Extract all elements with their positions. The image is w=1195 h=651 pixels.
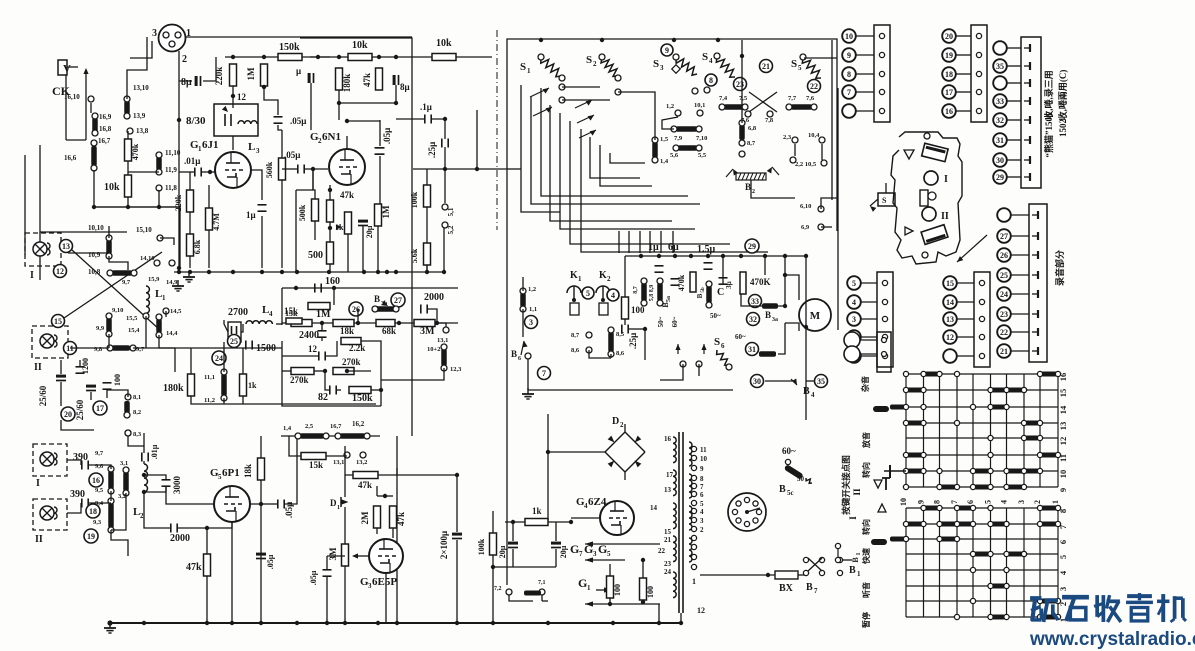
connector pins 5-3 bbox=[847, 272, 893, 367]
wire bbox=[821, 144, 823, 160]
wire bbox=[338, 103, 340, 120]
dash separator bbox=[496, 30, 498, 230]
svg-text:4: 4 bbox=[611, 291, 615, 300]
svg-text:6E5P: 6E5P bbox=[372, 576, 397, 588]
wire bbox=[108, 226, 110, 238]
svg-text:8,7: 8,7 bbox=[747, 140, 756, 147]
wire bbox=[106, 390, 108, 398]
resistor 18k bbox=[243, 458, 265, 480]
wire bbox=[426, 169, 428, 185]
wire bbox=[326, 556, 328, 569]
wire bbox=[89, 502, 111, 504]
svg-text:100: 100 bbox=[631, 305, 645, 315]
node bbox=[443, 117, 447, 121]
svg-text:1k: 1k bbox=[532, 506, 542, 516]
svg-text:12: 12 bbox=[697, 606, 705, 615]
svg-text:7,7: 7,7 bbox=[788, 95, 797, 102]
svg-text:5a: 5a bbox=[666, 296, 672, 302]
circled 35 bbox=[815, 375, 828, 388]
svg-text:杂音: 杂音 bbox=[860, 376, 870, 392]
node bbox=[231, 55, 266, 98]
svg-text:12,3: 12,3 bbox=[450, 366, 462, 373]
svg-text:.25μ: .25μ bbox=[628, 333, 638, 349]
label 9,7 bbox=[122, 279, 131, 286]
wire bbox=[127, 131, 129, 139]
svg-text:3: 3 bbox=[660, 64, 664, 72]
label rotated anjian text bbox=[841, 455, 851, 515]
wire bbox=[426, 265, 428, 272]
svg-text:1: 1 bbox=[692, 577, 696, 586]
circled 16 bbox=[89, 473, 103, 487]
wire bbox=[680, 613, 682, 623]
svg-text:.05μ: .05μ bbox=[290, 116, 306, 126]
capacitor .01u bbox=[184, 156, 201, 177]
node caps bus bbox=[639, 254, 787, 258]
svg-text:21: 21 bbox=[1000, 347, 1008, 356]
svg-text:10+2: 10+2 bbox=[427, 346, 440, 353]
svg-text:13,9: 13,9 bbox=[133, 112, 146, 120]
wiper arrows S1 bbox=[530, 88, 552, 116]
wire bbox=[282, 341, 381, 406]
svg-text:2400: 2400 bbox=[299, 330, 319, 341]
svg-text:S: S bbox=[520, 61, 526, 73]
wire bus caps bbox=[625, 255, 806, 257]
keyboard triangle down bbox=[904, 150, 914, 159]
wire bbox=[344, 515, 346, 544]
keyboard slant bar II bbox=[921, 225, 948, 245]
svg-text:10k: 10k bbox=[352, 40, 368, 51]
svg-text:4: 4 bbox=[852, 298, 856, 307]
svg-text:G: G bbox=[570, 542, 579, 556]
svg-text:I: I bbox=[30, 270, 34, 281]
resistor 47k grid bbox=[327, 190, 355, 222]
svg-text:8μ: 8μ bbox=[400, 82, 410, 92]
resistor 150k bbox=[278, 42, 302, 61]
wire bbox=[610, 354, 612, 358]
svg-text:20: 20 bbox=[64, 410, 72, 419]
wire bbox=[672, 231, 674, 253]
svg-text:5: 5 bbox=[852, 279, 856, 288]
wire bbox=[281, 180, 283, 268]
wire bbox=[885, 183, 887, 193]
svg-text:5b: 5b bbox=[701, 287, 706, 293]
svg-text:L: L bbox=[248, 141, 255, 153]
node bbox=[294, 286, 336, 290]
svg-text:1,5: 1,5 bbox=[660, 136, 669, 143]
switch bar 9,8-9,7 bbox=[94, 345, 145, 353]
capacitor 390 b bbox=[70, 489, 88, 508]
resistor 10k b bbox=[432, 38, 456, 61]
keyboard small rect bbox=[920, 190, 936, 206]
svg-text:1: 1 bbox=[578, 275, 582, 283]
wire bbox=[67, 503, 81, 513]
svg-text:4.7M: 4.7M bbox=[212, 213, 221, 231]
svg-text:10,4: 10,4 bbox=[808, 132, 820, 139]
wire bbox=[289, 436, 301, 456]
svg-text:BX: BX bbox=[779, 583, 794, 594]
svg-text:19: 19 bbox=[945, 51, 953, 60]
svg-text:19: 19 bbox=[87, 532, 95, 541]
wire bbox=[785, 323, 799, 331]
wire bbox=[377, 495, 393, 497]
svg-text:160: 160 bbox=[325, 276, 340, 287]
svg-text:60~: 60~ bbox=[735, 333, 746, 341]
wire bbox=[660, 231, 662, 253]
svg-text:60~: 60~ bbox=[671, 316, 679, 327]
svg-text:13: 13 bbox=[62, 242, 70, 251]
wire bbox=[128, 171, 159, 173]
svg-text:15: 15 bbox=[664, 528, 672, 536]
node bbox=[608, 600, 645, 606]
tube G5 6P1 bbox=[210, 467, 250, 522]
svg-text:47k: 47k bbox=[186, 562, 202, 573]
wire bottom of input block bbox=[94, 207, 180, 268]
circled 13 bbox=[60, 240, 73, 253]
svg-text:21: 21 bbox=[664, 536, 672, 544]
circled 24 bbox=[212, 351, 226, 365]
svg-text:3: 3 bbox=[529, 318, 533, 327]
svg-text:390: 390 bbox=[70, 489, 85, 500]
matrix column numbers bbox=[899, 498, 1060, 506]
wire bbox=[361, 341, 381, 406]
svg-text:50~: 50~ bbox=[710, 312, 721, 320]
wire bbox=[178, 527, 207, 529]
wire bbox=[232, 136, 234, 150]
wire bbox=[639, 231, 641, 253]
contact 2,3 bbox=[783, 134, 798, 143]
matrix closed contacts bbox=[903, 371, 1060, 619]
wire bbox=[493, 566, 505, 568]
contacts 7,1 bbox=[494, 580, 546, 596]
wire bbox=[376, 486, 378, 496]
wire bbox=[379, 120, 381, 146]
wire bbox=[522, 309, 524, 337]
wire bbox=[821, 198, 837, 209]
wire bbox=[109, 256, 128, 270]
wiper triangles S6 bbox=[675, 344, 706, 367]
wire bbox=[329, 222, 331, 242]
wire bbox=[326, 341, 337, 356]
svg-text:6: 6 bbox=[721, 342, 725, 350]
svg-text:“熊猫”1501: “熊猫”1501 bbox=[1043, 112, 1054, 158]
contacts 2,2 10,5 bbox=[790, 157, 827, 168]
svg-text:.05μ: .05μ bbox=[382, 128, 392, 144]
wire bbox=[313, 169, 315, 199]
switch bar 7,7-7,6 bbox=[786, 95, 817, 110]
cross wires bbox=[741, 92, 777, 124]
svg-text:180k: 180k bbox=[163, 383, 184, 394]
resistor 4.7M bbox=[206, 208, 222, 231]
wire bbox=[327, 555, 345, 557]
svg-text:9,7: 9,7 bbox=[122, 279, 131, 286]
label 9,4 bbox=[95, 500, 104, 507]
resistor 100 e bbox=[640, 578, 656, 600]
wire bbox=[144, 487, 166, 492]
node bbox=[379, 388, 383, 392]
svg-text:.25μ: .25μ bbox=[427, 142, 437, 158]
node bottom bbox=[205, 621, 263, 625]
coil L3 label bbox=[248, 141, 260, 155]
circled 29 bbox=[745, 239, 759, 253]
svg-text:15,10: 15,10 bbox=[136, 226, 152, 234]
wire bbox=[642, 560, 644, 578]
svg-text:3μ: 3μ bbox=[725, 281, 733, 289]
wire bbox=[658, 604, 660, 623]
resistor 150k b bbox=[349, 387, 373, 405]
svg-text:2.2k: 2.2k bbox=[349, 343, 365, 353]
svg-text:1μ: 1μ bbox=[648, 242, 659, 253]
switch bar 15,4 bbox=[128, 314, 178, 338]
capacitor 390 a bbox=[73, 452, 88, 470]
potentiometer 3M bbox=[328, 544, 358, 566]
wire bbox=[428, 309, 437, 323]
svg-text:14,5: 14,5 bbox=[170, 308, 182, 315]
wire bbox=[628, 231, 630, 253]
svg-text:3M: 3M bbox=[420, 326, 435, 337]
svg-text:8,3: 8,3 bbox=[133, 431, 142, 438]
wire bbox=[281, 130, 283, 158]
wire bundle bbox=[560, 113, 695, 229]
wire bbox=[40, 145, 127, 232]
wire bbox=[346, 136, 348, 149]
resistor 100 d bbox=[607, 576, 623, 598]
capacitor 3000 bbox=[162, 476, 183, 495]
svg-text:6: 6 bbox=[700, 491, 704, 499]
tape head I lower box bbox=[33, 444, 67, 489]
svg-text:快速: 快速 bbox=[861, 548, 871, 564]
connector pins 27-21 bbox=[997, 204, 1047, 362]
node bbox=[804, 254, 808, 329]
keyboard small circle top bbox=[924, 133, 930, 139]
svg-text:转向: 转向 bbox=[861, 519, 871, 535]
switch S1 bbox=[520, 54, 565, 103]
keyboard arrow right bbox=[957, 235, 987, 262]
switch bar 8,2 bbox=[124, 401, 141, 418]
wire bbox=[310, 83, 312, 130]
contact 13,1 bbox=[437, 327, 449, 344]
switch contact bar 16,9-16,8 bbox=[92, 113, 112, 136]
svg-text:8,2: 8,2 bbox=[133, 409, 141, 416]
svg-text:7,9: 7,9 bbox=[674, 135, 683, 142]
circled 8 bbox=[705, 74, 717, 86]
switch bar 7,9-7,10 bbox=[671, 126, 707, 142]
wire bbox=[206, 528, 208, 554]
svg-text:5.6k: 5.6k bbox=[410, 248, 419, 263]
svg-text:1M: 1M bbox=[381, 205, 391, 219]
label 50~ a bbox=[657, 316, 665, 327]
svg-text:31: 31 bbox=[748, 345, 756, 354]
switch B3b 27 bbox=[372, 293, 405, 312]
node bbox=[783, 273, 787, 308]
label 9,5 bbox=[95, 487, 104, 494]
svg-text:1: 1 bbox=[1051, 500, 1060, 504]
svg-text:6J1: 6J1 bbox=[202, 139, 219, 151]
svg-text:8: 8 bbox=[709, 76, 713, 85]
switch bar head2 bbox=[108, 498, 114, 533]
svg-text:6: 6 bbox=[1058, 540, 1068, 544]
svg-text:1,4: 1,4 bbox=[283, 425, 292, 432]
svg-text:8,1: 8,1 bbox=[133, 394, 141, 401]
switch bar head1 bbox=[108, 466, 114, 494]
wire bbox=[127, 37, 147, 99]
resistor 47k f bbox=[390, 506, 407, 528]
resistor 220k g1 bbox=[174, 190, 194, 212]
svg-text:10,8: 10,8 bbox=[88, 268, 101, 276]
node bbox=[337, 101, 398, 105]
svg-text:47k: 47k bbox=[396, 512, 406, 526]
wire bbox=[60, 360, 62, 374]
svg-text:13: 13 bbox=[946, 315, 954, 324]
label 9,3 bbox=[93, 519, 102, 526]
wire bbox=[143, 446, 145, 453]
label rotated luyin bufen bbox=[1054, 250, 1065, 286]
svg-text:470k: 470k bbox=[677, 274, 686, 291]
svg-text:G: G bbox=[578, 576, 587, 590]
resistor 1M bbox=[246, 64, 268, 86]
switch bar 5,6-5,5 bbox=[670, 145, 707, 159]
wire bbox=[39, 232, 41, 280]
wire bbox=[190, 348, 192, 374]
wire bbox=[649, 231, 651, 253]
resistor 47k d bbox=[186, 554, 211, 576]
wire bbox=[443, 228, 445, 272]
svg-text:6,9: 6,9 bbox=[801, 224, 810, 231]
wire bbox=[344, 566, 346, 623]
svg-text:S: S bbox=[714, 336, 720, 348]
resistor 180k b bbox=[163, 374, 195, 396]
svg-text:3: 3 bbox=[152, 28, 157, 39]
wire bbox=[79, 360, 81, 366]
wire bbox=[589, 350, 611, 358]
wire bbox=[242, 396, 244, 404]
capacitor .05u c bbox=[376, 128, 393, 154]
node bbox=[641, 558, 645, 562]
svg-text:.1μ: .1μ bbox=[420, 102, 432, 112]
wire bbox=[282, 370, 291, 372]
wire bbox=[344, 507, 346, 515]
svg-text:25: 25 bbox=[1000, 271, 1008, 280]
wire box left bbox=[295, 190, 297, 272]
svg-text:9: 9 bbox=[665, 46, 669, 55]
wire bbox=[128, 433, 144, 446]
capacitor 2x100u bbox=[439, 531, 462, 559]
svg-text:1,2: 1,2 bbox=[528, 286, 536, 293]
svg-text:15,4: 15,4 bbox=[128, 327, 140, 334]
contact 8,3 b bbox=[125, 430, 131, 436]
svg-text:1,4: 1,4 bbox=[660, 158, 669, 165]
svg-text:2,5: 2,5 bbox=[305, 423, 314, 430]
wire bus bbox=[225, 56, 330, 58]
wire bbox=[133, 348, 175, 372]
wire bbox=[831, 40, 833, 200]
svg-text:16,8: 16,8 bbox=[99, 125, 112, 133]
wire bbox=[296, 189, 313, 191]
svg-text:3,1: 3,1 bbox=[120, 460, 128, 467]
svg-text:22: 22 bbox=[810, 82, 818, 91]
wire bbox=[778, 256, 785, 306]
circled 18 bbox=[86, 504, 100, 518]
svg-text:7,10: 7,10 bbox=[696, 135, 707, 142]
wire bbox=[624, 472, 626, 480]
wire bbox=[629, 328, 645, 330]
label B5a bbox=[661, 296, 672, 308]
diode bridge D2 bbox=[605, 416, 645, 472]
circled 33 bbox=[749, 295, 779, 309]
wire bbox=[189, 172, 191, 190]
svg-text:3: 3 bbox=[593, 550, 597, 558]
contact 6,9 bbox=[801, 224, 824, 231]
wire bbox=[224, 320, 228, 332]
svg-text:12: 12 bbox=[308, 344, 318, 354]
svg-text:13,10: 13,10 bbox=[133, 84, 149, 92]
switch bar 7,4-7,5 bbox=[719, 95, 748, 110]
node bbox=[311, 167, 315, 171]
wire bbox=[444, 147, 446, 169]
svg-text:2700: 2700 bbox=[228, 307, 248, 318]
svg-text:7: 7 bbox=[700, 483, 704, 491]
resistor 2.2k bbox=[341, 338, 365, 354]
resistor 15k bbox=[284, 306, 312, 327]
logo kuang bbox=[1030, 598, 1058, 622]
svg-text:500k: 500k bbox=[298, 204, 307, 221]
circled 15 bbox=[52, 315, 65, 328]
label rotated mode text col2 bbox=[1057, 70, 1068, 121]
wire bbox=[347, 120, 380, 122]
svg-text:47k: 47k bbox=[362, 73, 372, 87]
svg-text:11: 11 bbox=[700, 446, 707, 454]
svg-text:8,6: 8,6 bbox=[616, 350, 625, 357]
wire bbox=[624, 319, 626, 325]
wire bbox=[700, 574, 775, 576]
label 14,9 bbox=[166, 279, 178, 286]
tape head II box bbox=[32, 326, 68, 373]
resistor 220k bbox=[214, 64, 237, 86]
wire bbox=[345, 446, 353, 475]
wire bbox=[804, 57, 837, 59]
svg-text:60~: 60~ bbox=[782, 446, 796, 456]
svg-text:放音: 放音 bbox=[861, 432, 871, 449]
contact 15,5 bbox=[112, 307, 149, 322]
wire bbox=[85, 72, 87, 140]
switch contact 11,8 bbox=[156, 184, 177, 192]
svg-text:8,6: 8,6 bbox=[571, 347, 580, 354]
svg-text:7,4: 7,4 bbox=[719, 95, 728, 102]
wire bbox=[144, 475, 166, 479]
label G7G3G5 bbox=[570, 542, 611, 558]
circled 3 bbox=[525, 316, 538, 329]
svg-text:6P1: 6P1 bbox=[222, 467, 240, 479]
switch B5c bbox=[779, 446, 812, 497]
svg-text:2M: 2M bbox=[360, 511, 370, 525]
wire bbox=[223, 342, 225, 372]
svg-text:1k: 1k bbox=[335, 223, 344, 232]
wire bbox=[512, 522, 514, 541]
wire bundle bbox=[531, 97, 700, 204]
logo shi bbox=[1062, 597, 1089, 621]
svg-text:.05μ: .05μ bbox=[309, 570, 318, 585]
svg-text:6: 6 bbox=[518, 356, 521, 362]
svg-text:470k: 470k bbox=[131, 143, 140, 160]
svg-text:17: 17 bbox=[945, 88, 953, 97]
diode D1 bbox=[330, 497, 349, 511]
wire bbox=[250, 480, 261, 504]
svg-text:www.crystalradio.cn: www.crystalradio.cn bbox=[1029, 629, 1195, 650]
contact 8,7 c bbox=[739, 140, 756, 157]
svg-text:150k: 150k bbox=[352, 393, 373, 404]
svg-text:4: 4 bbox=[700, 508, 704, 516]
svg-text:50: 50 bbox=[797, 475, 805, 483]
keyboard slant bar I bbox=[922, 143, 948, 161]
